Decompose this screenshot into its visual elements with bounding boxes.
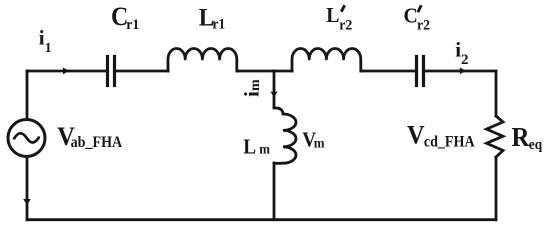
- label L'_r2: [326, 5, 352, 34]
- wire C'_r2 to top-right corner: [425, 70, 496, 73]
- label C_r1: [111, 3, 139, 33]
- resistor R_eq: [487, 116, 504, 157]
- svg-text:m: m: [259, 141, 270, 157]
- label V_m: [302, 129, 324, 152]
- svg-text:2: 2: [461, 52, 469, 68]
- wire left vertical top: [26, 71, 29, 120]
- AC source V_ab circle: [8, 120, 45, 157]
- arrow i1 on top wire: [63, 68, 69, 75]
- wire top-left horizontal: [27, 70, 106, 73]
- label L_m: [243, 136, 270, 159]
- inductor L'_r2: [292, 48, 361, 71]
- wire L_r1 to L'_r2: [237, 70, 292, 73]
- svg-text:C: C: [404, 5, 418, 28]
- arrow down on left wire: [23, 199, 31, 205]
- label C'_r2: [404, 5, 431, 34]
- label R_eq: [512, 122, 543, 153]
- svg-text:cd_FHA: cd_FHA: [424, 134, 475, 151]
- wire right vertical bottom: [495, 157, 498, 220]
- label V_cd_FHA: [407, 120, 475, 151]
- svg-text:m: m: [248, 79, 263, 91]
- svg-text:r1: r1: [212, 16, 225, 33]
- wire right vertical top: [495, 71, 498, 116]
- arrow i_m down on middle wire: [271, 92, 278, 98]
- svg-text:L: L: [243, 136, 256, 159]
- svg-text:r2: r2: [339, 17, 352, 34]
- wire L'_r2 to C'_r2: [361, 70, 414, 73]
- AC source sine wave: [14, 133, 39, 142]
- wire bottom horizontal: [27, 218, 496, 221]
- svg-text:r2: r2: [417, 17, 430, 34]
- svg-text:V: V: [407, 120, 425, 150]
- capacitor C_r1: [108, 57, 115, 86]
- wire middle vertical bottom: [273, 163, 276, 220]
- svg-text:L: L: [326, 5, 339, 28]
- prime mark of L'_r2: [342, 7, 344, 11]
- inductor L_r1: [168, 48, 237, 71]
- wire left vertical bottom: [26, 156, 29, 219]
- label i_m (rotated 90 CCW): [240, 79, 264, 97]
- svg-text:R: R: [512, 122, 530, 152]
- capacitor C'_r2: [417, 57, 424, 86]
- label L_r1: [199, 4, 226, 33]
- label V_ab_FHA: [57, 121, 122, 151]
- wire middle vertical top: [273, 71, 276, 108]
- wire C_r1 to L_r1: [116, 70, 168, 73]
- svg-text:m: m: [314, 135, 325, 151]
- prime mark of C'_r2: [419, 7, 421, 11]
- arrow i2 on top wire: [460, 68, 466, 75]
- svg-text:1: 1: [45, 41, 52, 56]
- svg-text:ab_FHA: ab_FHA: [71, 135, 123, 152]
- inductor L_m: [274, 108, 296, 163]
- svg-text:eq: eq: [529, 138, 543, 154]
- svg-text:r1: r1: [126, 16, 139, 33]
